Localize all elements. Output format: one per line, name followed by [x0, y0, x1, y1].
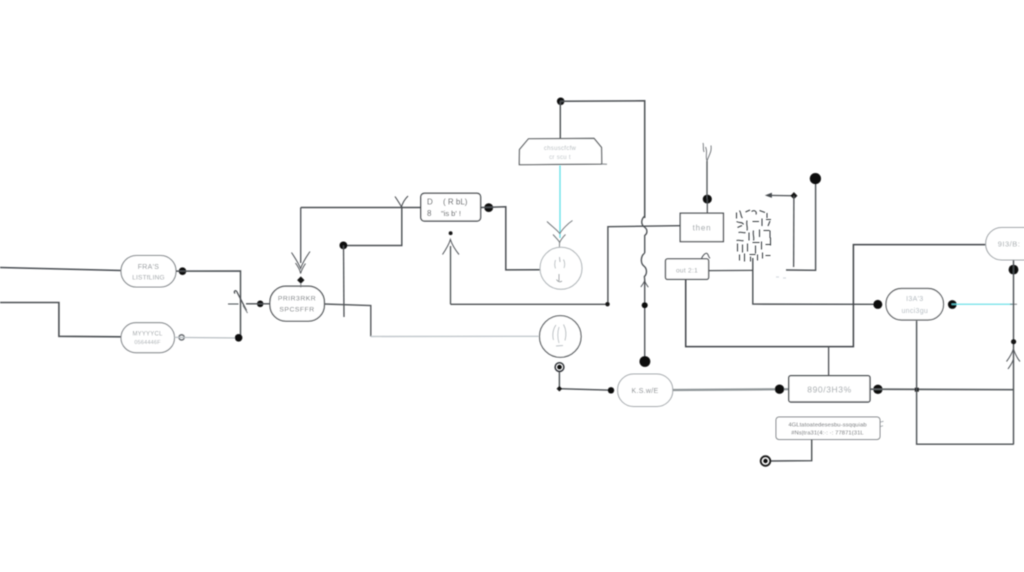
wire: K stadium to 8903 box (gray) [673, 388, 789, 391]
wire: out2 right elbow up to big top dot [709, 179, 816, 271]
wire: vertical from arrow tail down [793, 196, 795, 267]
svg-text:4GLtatoatedesesbu-ssqquiab: 4GLtatoatedesesbu-ssqquiab [788, 423, 866, 429]
wire: left input to FRAIS stadium [0, 268, 121, 271]
cyan arrow from card to circle 1 [547, 166, 573, 249]
wire: lower stadium to corner junction (faint) [175, 336, 239, 339]
wire: top horizontal to right drop [560, 101, 645, 218]
svg-text:SPCSFFR: SPCSFFR [279, 307, 314, 314]
left-pointing arrow with diamond tail [766, 193, 794, 197]
junction dot before DATA stadium [873, 300, 882, 309]
junction dot at K stadium input [608, 387, 614, 393]
junction dot above then box [703, 195, 712, 214]
wire: second left input elbow to lower stadium [0, 303, 121, 337]
svg-text:0564446F: 0564446F [134, 340, 161, 346]
node: note box with two text lines [776, 417, 884, 440]
junction cross on output wire [915, 388, 919, 392]
node: then box [680, 213, 723, 241]
wire: top junction to card shape [559, 101, 561, 138]
junction dot after D box [484, 203, 493, 212]
node: top right stadium 9PB [986, 228, 1024, 261]
small dot on right vertical [1011, 339, 1016, 344]
node: card/trapezoid shape [519, 138, 607, 164]
svg-text:I3A'3: I3A'3 [906, 296, 923, 303]
node: lower-left stadium [121, 323, 175, 353]
junction dot after DATA stadium [948, 300, 957, 309]
small diamond at elbow corner [557, 386, 563, 392]
scribble table [737, 210, 772, 262]
svg-text:9I3/B:: 9I3/B: [998, 240, 1021, 249]
node: DATA stadium [886, 289, 944, 321]
small dot at elbow corner [605, 302, 609, 306]
junction dot mid-left of D-box [340, 242, 348, 250]
wire: PRIMARY stadium output elbow to circle (faint right part) [324, 304, 538, 337]
small dot above up-arrow under D box [449, 231, 453, 235]
wire: out2 bottom big elbow to top-right stadium [686, 245, 986, 347]
svg-text:PRIR3RKR: PRIR3RKR [278, 296, 316, 303]
node: FRAIS LISTING stadium [121, 256, 176, 288]
target ring dot [761, 456, 771, 466]
switch diagonal stroke [228, 291, 248, 313]
wire: elbow from then-box to up-arrow [451, 226, 681, 305]
wire: top elbow from arrow to D-box with corner curl [301, 196, 422, 246]
svg-text:FRA'S: FRA'S [138, 264, 160, 271]
svg-text:( R bL): ( R bL) [443, 198, 468, 207]
wire: drop from big elbow down to 8903 box [828, 347, 830, 376]
junction dot before PRIMARY stadium [257, 301, 264, 308]
long vertical wire with hop squiggles and terminal dot [641, 216, 649, 362]
node: K.S.w/E stadium [618, 374, 673, 407]
junction dot after 8903 box [873, 385, 882, 394]
small diamond dot above PRIMARY stadium [297, 276, 304, 287]
svg-text:8: 8 [427, 209, 432, 218]
svg-text:#Ns|tra31(4:·: ·: 77871(31L: #Ns|tra31(4:·: ·: 77871(31L [791, 431, 864, 437]
arrow down into PRIMARY stadium [292, 208, 311, 274]
wire: vertical from mid junction down across stadium output [343, 246, 346, 318]
wire: note box elbow to target dot [771, 440, 812, 462]
junction dot before 8903 box [775, 385, 784, 394]
node: 8903 box [789, 376, 870, 402]
small junction dot on long vertical [642, 302, 648, 308]
svg-text:out 2:1: out 2:1 [676, 268, 698, 275]
node: PRIMARY SPONSOR stadium [270, 286, 325, 321]
wire: vertical above then box with flourish top [703, 143, 711, 199]
node: circle 1 [540, 247, 582, 289]
junction dot top center [557, 98, 565, 106]
svg-text:890/3H3%: 890/3H3% [807, 385, 852, 395]
svg-text:MYYYYCL: MYYYYCL [132, 332, 163, 338]
faint dots right of table [776, 277, 786, 278]
svg-text:"is b' !: "is b' ! [441, 209, 461, 218]
wire: right vertical from 9PB down to bottom rect [1013, 260, 1015, 444]
small ring dot after lower stadium [179, 335, 184, 340]
wire: D box output elbow down to circle 1 [481, 207, 540, 270]
node: out 2 box with corner flag [666, 253, 711, 279]
node: D (R b) box [421, 193, 481, 221]
junction dot after FRAIS stadium [179, 267, 187, 275]
ring dot below circle 2 [555, 363, 564, 372]
cyan wire from DATA stadium to right vertical [952, 301, 1017, 308]
wire: DATA stadium bottom rect loop [917, 321, 1014, 445]
wire: FRAIS to switch vertical [176, 271, 241, 338]
node: circle 2 [540, 316, 582, 358]
svg-text:chsuscfcfw: chsuscfcfw [544, 146, 577, 152]
wire: ring dot elbow to K stadium [559, 372, 611, 390]
svg-text:then: then [693, 224, 712, 233]
big dot top right [810, 173, 821, 184]
svg-text:LISTfLING: LISTfLING [132, 275, 165, 282]
big terminal dot [640, 356, 651, 367]
wire: vertical from table down to DATA stadium row [753, 258, 876, 304]
svg-text:K.S.w/E: K.S.w/E [632, 388, 659, 395]
small diamond dot at arrow tail [790, 192, 797, 199]
small up arrow on right vertical [1007, 349, 1021, 369]
wire: switch to PRIMARY stadium [246, 303, 270, 305]
svg-text:unci3gu: unci3gu [901, 308, 928, 315]
svg-text:D: D [427, 198, 433, 207]
junction dot corner below switch [235, 334, 243, 342]
arrow up pointing at D box from lower elbow [443, 240, 460, 305]
svg-text:cr scu t: cr scu t [549, 155, 571, 161]
wire: 8903 output to right vertical [870, 388, 1014, 391]
junction dot below 9PB stadium [1009, 265, 1019, 275]
